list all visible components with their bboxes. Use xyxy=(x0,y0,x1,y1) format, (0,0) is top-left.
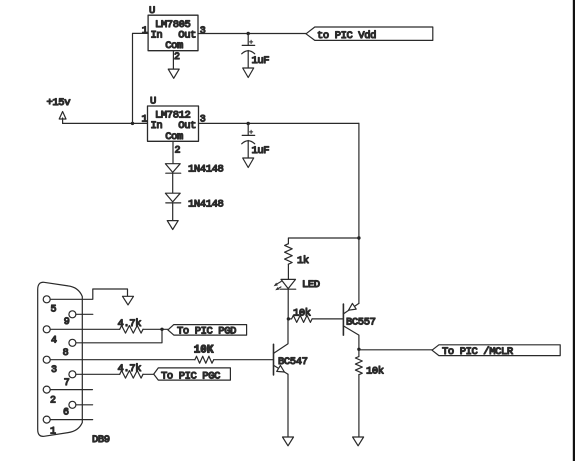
svg-text:3: 3 xyxy=(200,26,206,37)
wire +15v to LM7812 input xyxy=(63,122,148,124)
junction LED/R2/collector xyxy=(287,317,290,320)
wire main vertical rail xyxy=(358,123,360,303)
pin 4 xyxy=(43,326,50,333)
regulator U1 LM7805 xyxy=(142,5,206,63)
wire R2 to BC557 base xyxy=(312,318,343,320)
pin 6 xyxy=(69,401,76,408)
svg-text:U: U xyxy=(149,5,155,17)
wire LM7805 input down to +15v rail xyxy=(133,33,149,123)
svg-text:1uF: 1uF xyxy=(252,55,270,67)
svg-text:4.7k: 4.7k xyxy=(118,363,142,375)
transistor Q2 BC557 xyxy=(343,303,375,349)
ground under C1 xyxy=(243,68,254,78)
svg-text:1: 1 xyxy=(142,115,148,126)
wire R4 to PGD flag xyxy=(143,328,168,330)
svg-text:To PIC PGC: To PIC PGC xyxy=(161,370,220,382)
svg-text:8: 8 xyxy=(63,348,69,359)
svg-text:4: 4 xyxy=(51,335,57,346)
svg-text:9: 9 xyxy=(64,317,70,328)
wire R5 to BC547 base xyxy=(214,359,274,361)
svg-text:7: 7 xyxy=(64,378,70,389)
wire rail branch to 1k resistor xyxy=(288,238,359,244)
pin 3 xyxy=(43,356,50,363)
wire BC547 emitter to ground xyxy=(287,374,289,437)
wire pin2 stub xyxy=(50,389,92,391)
svg-text:Com: Com xyxy=(165,40,183,52)
wire pin5 to ground xyxy=(50,289,127,299)
junction PGD/pin8 xyxy=(160,328,163,331)
wire pin3 to R5 xyxy=(50,359,195,361)
svg-text:U: U xyxy=(150,96,156,108)
svg-text:4.7k: 4.7k xyxy=(118,318,142,330)
svg-text:to PIC Vdd: to PIC Vdd xyxy=(317,30,376,42)
ground under LM7805 xyxy=(168,69,179,78)
svg-text:1k: 1k xyxy=(297,255,309,267)
svg-text:2: 2 xyxy=(175,146,181,157)
svg-text:10k: 10k xyxy=(293,307,311,319)
diode D2 1N4148 xyxy=(165,193,223,210)
net flag To PIC PGC xyxy=(154,368,231,383)
ground under R3 xyxy=(353,437,364,446)
resistor R5 10K xyxy=(194,345,214,364)
svg-text:1: 1 xyxy=(142,26,148,37)
svg-text:2: 2 xyxy=(50,395,56,406)
pin 2 xyxy=(43,386,50,393)
pin 5 xyxy=(43,296,50,303)
svg-text:+15v: +15v xyxy=(47,97,71,109)
svg-text:To PIC PGD: To PIC PGD xyxy=(177,326,236,338)
wire R6 to PGC flag xyxy=(143,373,154,375)
wire LED to collector node xyxy=(287,289,289,319)
wire pin9 stub xyxy=(76,313,93,315)
resistor R4 4.7k xyxy=(118,318,144,333)
wire LM7805 pin2 to ground xyxy=(172,51,174,69)
ground under diodes xyxy=(167,221,178,230)
junction at C2 xyxy=(247,122,250,125)
wire D1 to D2 xyxy=(172,173,174,193)
pin 1 xyxy=(43,416,50,423)
border right edge xyxy=(573,0,575,461)
svg-text:Com: Com xyxy=(165,131,183,143)
junction BC557 collector node xyxy=(357,348,360,351)
svg-text:In: In xyxy=(151,120,163,132)
svg-text:6: 6 xyxy=(63,408,69,419)
regulator U2 LM7812 xyxy=(142,96,206,157)
transistor Q1 BC547 xyxy=(274,319,308,375)
net flag To PIC PGD xyxy=(168,325,247,338)
ground at pin5 xyxy=(123,296,134,305)
svg-text:2: 2 xyxy=(174,52,180,63)
capacitor C1 1uF xyxy=(242,34,270,69)
junction at C1 xyxy=(247,32,250,35)
svg-text:1N4148: 1N4148 xyxy=(188,199,224,211)
wire 1k to LED xyxy=(287,264,289,279)
svg-text:To PIC /MCLR: To PIC /MCLR xyxy=(442,346,514,358)
junction: +15v rail / LM7805 input branch xyxy=(131,122,134,125)
net flag To PIC /MCLR xyxy=(432,345,560,358)
wire pin4 to R4 xyxy=(50,328,120,330)
diode D1 1N4148 xyxy=(165,164,223,176)
svg-text:1uF: 1uF xyxy=(252,145,270,157)
svg-text:BC557: BC557 xyxy=(346,317,376,329)
svg-text:In: In xyxy=(151,29,163,41)
wire pin1 stub xyxy=(50,419,92,421)
connector J1 DB9 body xyxy=(38,282,83,436)
pin 8 xyxy=(69,339,76,346)
wire junction down to pin8 xyxy=(76,329,162,343)
wire R3 to ground xyxy=(358,375,360,437)
svg-text:10k: 10k xyxy=(366,366,384,378)
svg-text:10K: 10K xyxy=(194,345,214,357)
wire LM7805 out to Vdd flag xyxy=(198,33,306,35)
resistor R3 10k xyxy=(355,357,383,378)
wire collector node to MCLR flag xyxy=(359,349,432,351)
ground under BC547 xyxy=(283,437,294,446)
LED xyxy=(274,279,320,291)
net flag to PIC Vdd xyxy=(306,27,433,42)
resistor R2 10k xyxy=(288,307,312,322)
wire pin6 stub xyxy=(76,404,93,406)
svg-text:1N4148: 1N4148 xyxy=(188,164,224,176)
svg-text:BC547: BC547 xyxy=(278,356,308,368)
resistor R1 1k xyxy=(285,244,309,267)
svg-text:DB9: DB9 xyxy=(92,434,110,446)
capacitor C2 1uF xyxy=(242,124,270,159)
pin 7 xyxy=(69,371,76,378)
svg-text:3: 3 xyxy=(51,365,57,376)
svg-text:1: 1 xyxy=(50,427,56,438)
pin 9 xyxy=(69,311,76,318)
svg-text:LED: LED xyxy=(302,279,320,291)
svg-text:5: 5 xyxy=(51,304,57,315)
resistor R6 4.7k xyxy=(118,363,144,378)
wire LM7812 out to rail xyxy=(199,122,359,124)
junction rail to 1k branch xyxy=(357,236,360,239)
wire pin7 to R6 xyxy=(76,373,120,375)
wire collector node down to R3 xyxy=(358,349,360,356)
wire D2 to ground xyxy=(172,203,174,221)
wire LM7812 pin2 to diodes xyxy=(172,141,174,163)
power flag +15v xyxy=(47,97,71,123)
ground under C2 xyxy=(243,158,254,168)
